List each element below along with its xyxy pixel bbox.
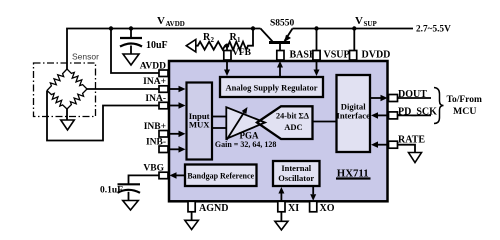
pin RATE xyxy=(389,141,398,148)
label supply voltage 2.7~5.5V xyxy=(416,25,451,35)
ground RATE xyxy=(409,153,422,163)
wire PD_SCK to MCU xyxy=(398,114,432,116)
block Digital Interface xyxy=(336,75,370,152)
pin BASE xyxy=(277,51,284,61)
wire XI to ground xyxy=(280,212,282,222)
svg-text:Gain = 32, 64, 128: Gain = 32, 64, 128 xyxy=(215,140,276,149)
wire bridge bottom to ground xyxy=(66,109,68,120)
amplifier PGA and ADC block fills xyxy=(226,106,312,139)
pin DVDD xyxy=(350,51,357,61)
label V_AVDD xyxy=(157,15,185,28)
junction AVDD rail / C1 xyxy=(129,26,133,30)
svg-text:1: 1 xyxy=(237,36,241,44)
pin AVDD xyxy=(159,70,168,77)
pin INA+ xyxy=(159,86,168,93)
pin INB+ xyxy=(159,131,168,138)
label INB- pin xyxy=(146,138,166,148)
wire AVDD rail (V_AVDD net) xyxy=(67,29,261,71)
pin VSUP xyxy=(313,51,320,61)
label HX711 (underlined) xyxy=(336,168,371,180)
label MCU xyxy=(453,106,476,117)
label INB+ pin xyxy=(144,122,166,132)
svg-text:AVDD: AVDD xyxy=(166,20,185,28)
wire XI pin to oscillator (arrow) xyxy=(278,187,284,201)
svg-text:S8550: S8550 xyxy=(270,19,295,29)
label XO pin xyxy=(320,203,335,214)
label To/From xyxy=(447,95,482,105)
svg-text:V: V xyxy=(355,15,363,27)
wire AVDD pin drop xyxy=(111,29,159,74)
label R1 xyxy=(230,32,242,44)
label V_SUP xyxy=(355,15,377,28)
label PD_SCK pin xyxy=(398,106,437,117)
capacitor C2 0.1uF xyxy=(118,184,141,200)
junction R1/R2/VFB node xyxy=(225,44,229,48)
label VBG pin xyxy=(143,164,164,174)
wire ADC to Digital Interface xyxy=(313,121,338,123)
label XI pin xyxy=(288,203,299,214)
wire VSUP pin drop xyxy=(316,29,318,53)
label RATE pin xyxy=(398,135,425,146)
pin INB- xyxy=(159,146,168,153)
pin VFB xyxy=(224,51,231,61)
wire MUX to PGA (-) xyxy=(212,127,226,129)
svg-text:AGND: AGND xyxy=(199,203,228,214)
svg-text:Analog Supply Regulator: Analog Supply Regulator xyxy=(225,83,317,93)
ground bridge xyxy=(61,120,75,130)
wire INB+ to MUX (arrow) xyxy=(168,131,186,138)
svg-text:DVDD: DVDD xyxy=(362,50,391,61)
wire VBG to C2 xyxy=(129,175,160,184)
svg-text:To/From: To/From xyxy=(447,95,482,105)
label AGND pin xyxy=(199,203,228,214)
bridge resistor (top-right arm) xyxy=(67,69,87,89)
junction AVDD rail / AVDD pin wire xyxy=(109,26,113,30)
svg-text:2: 2 xyxy=(211,36,215,44)
svg-text:VBG: VBG xyxy=(143,164,164,174)
brace to MCU xyxy=(434,88,444,124)
block Bandgap Reference xyxy=(185,165,257,187)
wire VSUP pin to regulator (arrow) xyxy=(314,61,320,77)
ground C2 xyxy=(123,201,139,211)
ground C1 xyxy=(123,54,139,65)
wire INB- to MUX (arrow) xyxy=(168,146,186,153)
wire RATE to ground xyxy=(398,145,416,153)
label DOUT pin xyxy=(398,89,427,100)
wire MUX to PGA (+) xyxy=(212,116,226,118)
wire R1 to AVDD rail xyxy=(249,29,253,46)
wire RATE to Digital Interface (arrow) xyxy=(371,141,388,148)
wire DOUT to MCU xyxy=(398,97,432,99)
svg-text:MCU: MCU xyxy=(453,106,476,117)
svg-text:Bandgap Reference: Bandgap Reference xyxy=(187,172,254,181)
wire AGND to ground xyxy=(191,212,193,221)
label BASE pin xyxy=(290,50,316,61)
ADC block 24-bit sigma-delta xyxy=(257,106,313,139)
ground feedback divider (left-pointing) xyxy=(186,39,196,52)
bridge resistor (bottom-right arm) xyxy=(67,89,87,109)
svg-text:0.1uF: 0.1uF xyxy=(100,186,123,196)
bridge resistor (bottom-left arm) xyxy=(47,91,67,110)
pin XO xyxy=(310,201,317,212)
block Input MUX xyxy=(187,83,213,160)
svg-text:Interface: Interface xyxy=(336,110,370,120)
wire VFB pin to regulator (arrow) xyxy=(224,61,230,77)
wire regulator to BASE pin (arrow) xyxy=(277,61,283,77)
svg-text:INA-: INA- xyxy=(145,94,166,104)
label DVDD pin xyxy=(362,50,391,61)
svg-text:Sensor: Sensor xyxy=(72,52,99,62)
wire PD_SCK to Digital Interface (arrow) xyxy=(371,112,388,119)
pin DOUT xyxy=(389,95,398,102)
pin AGND xyxy=(188,201,195,212)
svg-text:SUP: SUP xyxy=(364,20,378,28)
svg-text:INA+: INA+ xyxy=(143,77,166,87)
svg-text:INB+: INB+ xyxy=(144,122,166,132)
label INA- pin xyxy=(145,94,166,104)
label VSUP pin xyxy=(324,50,350,61)
junction AVDD rail / R1 branch xyxy=(251,26,255,30)
svg-text:XO: XO xyxy=(320,203,335,214)
ground AGND xyxy=(185,220,199,229)
transistor Q1 S8550 (PNP) xyxy=(261,29,293,53)
wire Digital Interface to DOUT (arrow) xyxy=(370,95,388,101)
IC U1 HX711 chip body xyxy=(169,61,388,201)
wire VFB node to VFB pin xyxy=(226,46,228,52)
capacitor C1 10uF xyxy=(120,29,142,55)
junction VSUP rail / DVDD pin xyxy=(352,26,356,30)
svg-text:VSUP: VSUP xyxy=(324,50,350,61)
svg-text:Oscillator: Oscillator xyxy=(278,173,314,183)
wire INA- to MUX (arrow) xyxy=(168,102,186,109)
svg-text:Internal: Internal xyxy=(281,163,311,173)
label PGA xyxy=(240,131,259,141)
wire sensor OUT+ to INA+ xyxy=(87,88,159,90)
wire bandgap to VBG pin (arrow) xyxy=(170,172,186,179)
pin PD_SCK xyxy=(389,112,398,119)
svg-text:10uF: 10uF xyxy=(146,40,168,51)
label 10uF xyxy=(146,40,168,51)
label PGA gain xyxy=(215,140,276,149)
label R2 xyxy=(203,32,215,44)
svg-text:BASE: BASE xyxy=(290,50,316,61)
label AVDD pin xyxy=(140,61,166,71)
wire DVDD pin drop xyxy=(353,29,355,53)
label Sensor xyxy=(72,52,99,62)
resistor R1 xyxy=(227,42,249,50)
svg-text:AVDD: AVDD xyxy=(140,61,166,71)
svg-text:24-bit ΣΔ: 24-bit ΣΔ xyxy=(276,112,309,121)
label S8550 xyxy=(270,19,295,29)
label INA+ pin xyxy=(143,77,166,87)
pin XI xyxy=(278,201,285,212)
junction VSUP rail / VSUP pin xyxy=(314,26,318,30)
ground XI xyxy=(275,221,288,230)
svg-text:VFB: VFB xyxy=(232,48,252,58)
svg-text:V: V xyxy=(157,15,165,27)
amplifier PGA xyxy=(226,107,265,140)
pin VBG xyxy=(159,172,168,179)
sensor enclosure (dash-dot box) xyxy=(34,63,96,117)
wire INA+ to MUX (arrow) xyxy=(168,86,186,92)
svg-text:INB-: INB- xyxy=(146,138,166,148)
bridge resistor (top-left arm) xyxy=(47,69,67,91)
label VFB pin xyxy=(232,48,252,58)
svg-text:ADC: ADC xyxy=(284,122,302,132)
wire VSUP rail (V_SUP net) xyxy=(293,28,414,30)
pin INA- xyxy=(159,102,168,109)
wire oscillator to XO pin (arrow) xyxy=(310,186,316,201)
block Internal Oscillator xyxy=(273,161,320,186)
wire sensor OUT- to INA- xyxy=(47,91,159,141)
block Analog Supply Regulator xyxy=(220,77,323,97)
svg-text:2.7~5.5V: 2.7~5.5V xyxy=(416,25,451,35)
label 0.1uF xyxy=(100,186,123,196)
resistor R2 xyxy=(196,42,227,50)
svg-text:XI: XI xyxy=(288,203,299,214)
svg-text:MUX: MUX xyxy=(189,119,210,129)
